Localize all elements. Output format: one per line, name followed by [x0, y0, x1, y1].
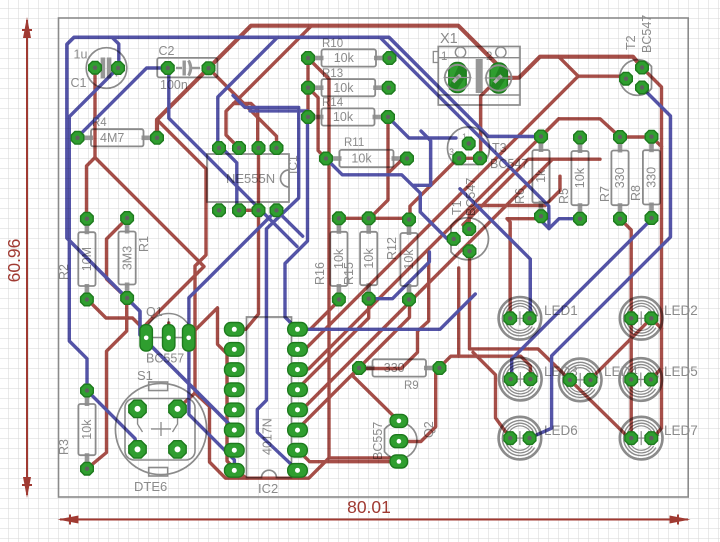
capacitor C1: [86, 48, 127, 89]
pad: [453, 152, 466, 165]
svg-text:3M3: 3M3: [120, 246, 134, 270]
capacitor C2: [157, 58, 217, 78]
wire: [651, 318, 661, 328]
transistor T3: [448, 127, 490, 164]
pad: [625, 312, 638, 325]
pad: [288, 343, 308, 357]
svg-text:10k: 10k: [362, 248, 376, 269]
svg-text:1: 1: [441, 51, 447, 63]
pad: [163, 325, 175, 352]
wire: [642, 68, 662, 440]
wire: [277, 210, 303, 236]
switch S1 DTE6: [115, 383, 206, 474]
pad: [504, 373, 517, 386]
pad: [333, 212, 346, 225]
LED LED5: [620, 358, 663, 401]
wire: [651, 368, 662, 379]
wire: [298, 450, 398, 462]
pad: [620, 72, 633, 85]
pad: [288, 403, 308, 417]
pad: [564, 374, 577, 387]
svg-text:330: 330: [613, 167, 627, 188]
wire: [570, 380, 631, 440]
pad: [225, 464, 245, 478]
wire: [545, 176, 560, 205]
pad: [183, 325, 195, 352]
wire: [352, 369, 399, 422]
svg-text:80.01: 80.01: [347, 497, 391, 517]
wire: [87, 391, 138, 450]
wire: [189, 210, 277, 470]
pad: [225, 423, 245, 437]
resistor R6: [539, 137, 544, 153]
pad: [625, 432, 638, 445]
wire: [499, 57, 642, 78]
pad: [390, 414, 408, 427]
wire: [234, 104, 258, 148]
pad: [121, 212, 134, 225]
pad: [233, 204, 246, 217]
wire: [298, 299, 369, 389]
wire: [306, 58, 309, 117]
pad: [169, 400, 186, 417]
wire: [559, 57, 626, 79]
pad: [474, 152, 487, 165]
svg-text:100n: 100n: [160, 78, 188, 92]
resistor R14: [308, 115, 324, 120]
wire: [157, 120, 247, 479]
LED LED4: [559, 359, 602, 402]
svg-text:10k: 10k: [351, 152, 372, 166]
resistor R4: [78, 136, 94, 141]
pad: [636, 81, 649, 94]
wire: [226, 26, 312, 148]
resistor R3: [85, 391, 90, 407]
pad: [523, 432, 536, 445]
transistor Q1: [145, 314, 192, 338]
wire: [112, 37, 119, 68]
pad: [362, 292, 375, 305]
svg-text:10k: 10k: [573, 167, 587, 188]
pad: [462, 137, 475, 150]
pad: [270, 142, 283, 155]
pad: [645, 312, 658, 325]
resistor R10: [308, 56, 324, 61]
pad: [463, 245, 476, 258]
svg-text:T2: T2: [624, 35, 638, 50]
wire: [481, 78, 499, 158]
pad: [523, 312, 536, 325]
wire: [457, 268, 460, 356]
LED LED1: [499, 297, 542, 340]
pad: [625, 373, 638, 386]
wire: [87, 298, 127, 469]
wire: [414, 131, 431, 185]
pad: [382, 81, 395, 94]
wire: [369, 117, 388, 219]
pad: [433, 362, 446, 375]
wire: [233, 95, 299, 470]
svg-text:10k: 10k: [334, 51, 355, 65]
resistor R5: [578, 138, 583, 154]
pad: [524, 373, 537, 386]
resistor R7: [618, 137, 623, 153]
wire: [530, 88, 671, 439]
pad: [645, 432, 658, 445]
wire: [298, 300, 341, 330]
resistor R13: [308, 85, 324, 90]
transistor Q2: [385, 422, 417, 458]
pad: [353, 362, 366, 375]
svg-text:10k: 10k: [333, 81, 354, 95]
pad: [288, 363, 308, 377]
svg-text:X1: X1: [440, 31, 458, 47]
pad: [320, 152, 333, 165]
pad: [390, 455, 408, 468]
svg-text:S1: S1: [137, 368, 153, 383]
op-amp U1 / IC1 NE555N: [207, 154, 289, 202]
pad: [129, 400, 146, 417]
pad: [112, 62, 125, 75]
vertical dimension 60.96: [26, 20, 28, 495]
IC2 4017N: [247, 317, 292, 478]
pad: [463, 223, 476, 236]
pad: [535, 210, 548, 223]
pad: [162, 62, 175, 75]
wire: [507, 219, 539, 319]
resistor R15: [366, 218, 371, 234]
wire: [250, 111, 308, 329]
resistor R2: [85, 219, 90, 235]
pad: [288, 383, 308, 397]
svg-text:1u: 1u: [74, 48, 88, 62]
pad: [252, 204, 265, 217]
resistor R16: [337, 218, 342, 234]
resistor R8: [649, 137, 654, 153]
pad: [403, 293, 416, 306]
wire: [339, 217, 410, 220]
wire: [93, 68, 96, 158]
pad: [333, 293, 346, 306]
wire: [157, 26, 499, 138]
wire: [620, 219, 631, 440]
board outline: [59, 18, 689, 497]
wire: [67, 37, 540, 429]
resistor R11: [326, 156, 342, 161]
pad: [81, 462, 94, 475]
wire: [234, 148, 258, 329]
wire: [209, 68, 277, 148]
svg-text:R15: R15: [342, 262, 356, 285]
svg-text:BC547: BC547: [640, 15, 654, 53]
wire: [298, 294, 476, 329]
pad: [151, 132, 164, 145]
pad: [288, 323, 308, 337]
horizontal dimension 80.01: [60, 519, 688, 521]
svg-text:R11: R11: [344, 137, 364, 149]
pad: [225, 363, 245, 377]
pad: [574, 131, 587, 144]
pad: [584, 374, 597, 387]
pad: [213, 204, 226, 217]
wire: [224, 150, 239, 210]
pad: [252, 142, 265, 155]
pad: [225, 343, 245, 357]
wire: [473, 352, 510, 438]
pad: [233, 142, 246, 155]
pad: [288, 443, 308, 457]
pad: [302, 81, 315, 94]
wire: [308, 58, 329, 458]
LED LED6: [499, 417, 542, 460]
svg-text:R14: R14: [322, 97, 344, 109]
pad: [140, 325, 152, 352]
pad: [225, 383, 245, 397]
wire: [459, 157, 481, 160]
wire: [470, 251, 570, 380]
pad: [302, 52, 315, 65]
svg-text:330: 330: [645, 167, 659, 188]
pad: [129, 441, 146, 458]
pad: [535, 130, 548, 143]
resistor R9: [359, 366, 375, 371]
svg-text:60.96: 60.96: [4, 239, 24, 283]
svg-text:R10: R10: [322, 38, 343, 50]
wire: [460, 189, 530, 318]
svg-text:R16: R16: [313, 262, 327, 285]
pad: [270, 204, 283, 217]
svg-text:10k: 10k: [333, 110, 354, 124]
wire: [69, 68, 118, 391]
pad: [614, 131, 627, 144]
wire: [188, 308, 397, 478]
wire: [397, 369, 440, 441]
svg-text:R8: R8: [629, 185, 643, 201]
pad: [71, 132, 84, 145]
pad: [383, 52, 396, 65]
wire: [107, 218, 128, 298]
wire: [298, 300, 410, 430]
svg-text:LED2: LED2: [664, 303, 698, 318]
svg-text:DTE6: DTE6: [134, 479, 167, 494]
pad: [401, 152, 414, 165]
wire: [389, 159, 403, 173]
wire: [440, 356, 531, 379]
connector X1: [438, 47, 520, 106]
svg-text:R7: R7: [598, 186, 612, 202]
pad: [645, 373, 658, 386]
pad: [89, 61, 102, 74]
wire: [369, 252, 430, 299]
wire: [169, 68, 297, 246]
pad: [302, 111, 315, 124]
transistor T1: [451, 218, 488, 260]
wire: [298, 119, 559, 369]
pad: [447, 233, 460, 246]
wire: [410, 158, 459, 220]
pad: [81, 212, 94, 225]
pad: [121, 292, 134, 305]
wire: [298, 76, 579, 349]
svg-text:R1: R1: [137, 236, 151, 252]
wire: [463, 159, 600, 225]
wire: [95, 158, 204, 339]
svg-text:R3: R3: [57, 439, 71, 455]
svg-text:IC2: IC2: [258, 481, 278, 496]
LED LED2: [620, 297, 663, 340]
pad: [225, 323, 245, 337]
wire: [388, 117, 456, 138]
svg-text:LED7: LED7: [664, 423, 698, 438]
pad: [362, 212, 375, 225]
pad: [225, 443, 245, 457]
pad: [202, 62, 215, 75]
svg-text:4M7: 4M7: [100, 131, 124, 145]
pad: [288, 464, 308, 478]
pad: [614, 212, 627, 225]
wire: [512, 219, 652, 379]
LED LED3: [499, 358, 542, 401]
pad: [382, 111, 395, 124]
wire: [239, 209, 259, 212]
wire: [541, 119, 662, 147]
wire: [178, 393, 196, 409]
pad: [288, 423, 308, 437]
LED LED7: [620, 417, 663, 460]
wire: [218, 37, 278, 148]
svg-text:R9: R9: [404, 380, 419, 392]
pad: [390, 435, 408, 448]
wire: [469, 206, 545, 230]
svg-text:LED5: LED5: [664, 364, 698, 379]
pad: [504, 432, 517, 445]
pad: [169, 441, 186, 458]
pad: [81, 293, 94, 306]
svg-text:10k: 10k: [80, 419, 94, 440]
svg-text:C2: C2: [159, 44, 175, 58]
pad: [504, 312, 517, 325]
wire: [78, 68, 168, 137]
pad: [574, 212, 587, 225]
pad: [403, 213, 416, 226]
pad: [645, 212, 658, 225]
wire: [326, 159, 454, 239]
wire: [87, 158, 96, 219]
wire: [381, 38, 549, 228]
resistor R1: [125, 218, 130, 234]
wire: [308, 88, 326, 159]
svg-text:C1: C1: [71, 76, 87, 90]
pad: [81, 384, 94, 397]
wire: [359, 252, 429, 369]
pad: [225, 403, 245, 417]
wire: [591, 318, 652, 379]
svg-text:BC557: BC557: [371, 422, 385, 460]
resistor R12: [407, 220, 412, 236]
pad: [645, 130, 658, 143]
transistor T2: [620, 60, 652, 96]
pad: [213, 142, 226, 155]
wire: [539, 219, 580, 229]
wire: [298, 160, 553, 409]
pad: [636, 61, 649, 74]
wire: [167, 323, 170, 338]
wire: [88, 300, 147, 339]
